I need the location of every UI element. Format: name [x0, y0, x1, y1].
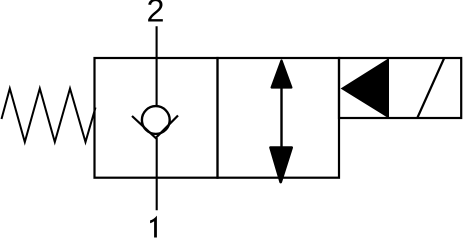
flow arrow head down [271, 148, 292, 182]
svg-text:2: 2 [147, 0, 165, 29]
flow arrow head up [272, 61, 292, 88]
spring [2, 89, 96, 143]
check valve ball [142, 106, 170, 134]
port 2 wire [156, 26, 158, 105]
port 1 wire [156, 138, 158, 210]
flow arrow shaft [280, 61, 282, 176]
solenoid box [339, 58, 461, 118]
solenoid divider [387, 58, 389, 118]
solenoid armature triangle [342, 59, 389, 117]
solenoid slash [418, 59, 445, 118]
valve body middle box [218, 58, 340, 178]
port 1 label [150, 216, 157, 238]
check valve seat [132, 116, 178, 139]
valve body left box [95, 58, 218, 178]
